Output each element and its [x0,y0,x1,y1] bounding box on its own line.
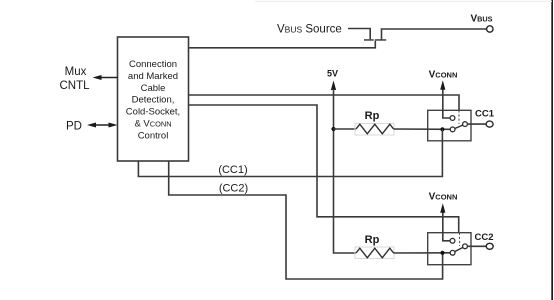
5V supply arrow [331,81,336,91]
resistor Rp1 [356,124,394,134]
svg-text:Connection: Connection [129,59,177,70]
switch S2 blade [453,246,465,252]
svg-text:& VCONN: & VCONN [134,119,171,130]
svg-text:CC1: CC1 [475,109,495,120]
switch S1 pole contact [463,122,468,127]
junction dot node CC2/Rp2 [440,251,444,255]
svg-text:(CC1): (CC1) [218,164,247,176]
resistor Rp2 highlight box [355,247,394,259]
svg-text:VBUS: VBUS [470,14,492,25]
svg-text:and Marked: and Marked [128,71,178,82]
resistor Rp1 highlight box [355,124,394,136]
terminal VBUS [487,26,493,32]
wire Rp2 to switch S2 [394,252,451,254]
transistor Q1 gate bar [364,39,374,41]
switch S1 throw contact top [450,116,455,121]
junction dot node 5V/Rp1 [331,127,335,131]
transistor Q1 drain wire to VBUS [382,29,487,40]
switch S1 blade [453,124,465,129]
svg-text:Cable: Cable [141,83,166,94]
svg-text:Cold-Socket,: Cold-Socket, [126,107,180,118]
svg-text:(CC2): (CC2) [219,183,248,195]
junction dot node CC1/Rp1 [440,127,444,131]
wire net CC1 from U1 to S1 [138,129,442,176]
VCONN1 arrowhead [440,80,445,90]
VCONN2 arrowhead [440,203,445,213]
svg-text:5V: 5V [327,69,338,79]
label Mux CNTL [59,66,90,92]
control box U1 text [126,59,180,141]
switch S2 throw contact top [450,238,455,243]
switch S1 actuator dashed link [458,110,460,124]
svg-text:PD: PD [66,121,82,133]
wire S2 pole to CC2 [467,245,486,247]
svg-text:Rp: Rp [365,110,380,122]
wire S1 pole to CC1 [467,123,486,125]
svg-text:Control: Control [138,130,169,141]
PD double arrow [94,124,111,126]
resistor Rp2 [356,248,394,258]
svg-text:CC2: CC2 [474,232,493,243]
wire VBUS Source to gate [348,29,370,40]
switch S2 box [428,233,471,265]
frame top faint border [255,0,552,3]
control box U1 [118,37,189,161]
terminal CC2 [486,243,493,249]
switch S1 box [428,110,471,141]
svg-text:VBUS Source: VBUS Source [277,24,342,36]
svg-text:Detection,: Detection, [132,95,175,106]
switch S1 throw contact bottom [450,127,455,132]
svg-text:VCONN: VCONN [429,192,458,203]
transistor Q1 channel bar [375,39,386,41]
svg-text:CNTL: CNTL [59,80,90,92]
wire switch S2 control from U1 [189,105,459,233]
wire 5V to Rp1 [334,128,357,130]
transistor Q1 source wire to box [189,41,376,48]
svg-text:VCONN: VCONN [429,69,458,80]
svg-text:Mux: Mux [65,66,87,78]
wire Rp1 to switch S1 [394,128,451,130]
Mux CNTL arrow [100,77,118,79]
terminal CC1 [486,121,493,127]
wire VCONN2 [443,212,450,241]
wire switch S1 control from U1 [189,95,460,110]
wire 5V rail [334,89,357,253]
svg-text:Rp: Rp [365,234,380,246]
switch S2 actuator dashed link [459,233,461,246]
wire VCONN1 [443,89,450,119]
frame right border [551,0,553,300]
wire net CC2 from U1 to S2 [169,161,443,279]
switch S2 pole contact [463,244,468,249]
switch S2 throw contact bottom [450,250,455,255]
